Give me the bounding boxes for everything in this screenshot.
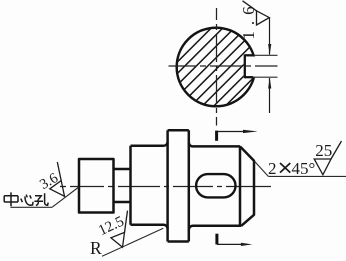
surface roughness symbol 25 — [314, 141, 341, 175]
left end cap cylinder — [79, 159, 114, 213]
neck (small diameter section) — [114, 168, 131, 171]
surface roughness symbol 3.6 — [50, 162, 65, 196]
keyway notch cutout (erases circle arc and hatching) — [244, 57, 258, 78]
middle cylinder — [129, 146, 132, 225]
label zhong-xin-kong (center hole), drawn strokes — [4, 192, 48, 206]
main body cylinder — [189, 142, 240, 146]
fillet radius leader line — [102, 228, 163, 256]
svg-text:3.6: 3.6 — [37, 170, 61, 193]
chamfered right end — [240, 146, 254, 225]
keyway notch edges — [245, 54, 254, 78]
chamfer leader line and shelf — [255, 161, 346, 176]
section viewing direction lines — [217, 132, 249, 245]
vertical centerline of cross-section view — [216, 8, 218, 126]
svg-text:R: R — [90, 238, 102, 258]
svg-text:1.6: 1.6 — [239, 0, 258, 39]
shaft cross-section circle outline — [177, 28, 256, 107]
section cutting plane marks — [215, 131, 218, 245]
svg-text:2: 2 — [268, 159, 277, 178]
surface roughness symbol 12.5 — [111, 211, 128, 248]
keyway width dimension line — [269, 18, 271, 114]
horizontal centerline of cross-section view — [169, 65, 278, 67]
section hatching of shaft cross-section — [135, 0, 334, 108]
shaft outline — [79, 130, 254, 241]
center hole leader line — [10, 187, 78, 207]
dimension arrowheads — [268, 44, 271, 89]
character xin — [21, 195, 33, 206]
flange disc — [166, 130, 169, 241]
character zhong — [4, 192, 18, 206]
svg-text:25: 25 — [315, 141, 332, 160]
keyway width extension lines — [253, 55, 277, 77]
svg-text:12.5: 12.5 — [96, 214, 127, 240]
svg-text:45°: 45° — [292, 159, 316, 178]
horizontal centerline of shaft side view — [60, 186, 271, 188]
surface roughness symbol 1.6 — [243, 1, 270, 25]
section viewing direction arrowheads — [241, 130, 258, 246]
character kong — [34, 193, 48, 205]
keyway slot in side view — [196, 174, 235, 197]
